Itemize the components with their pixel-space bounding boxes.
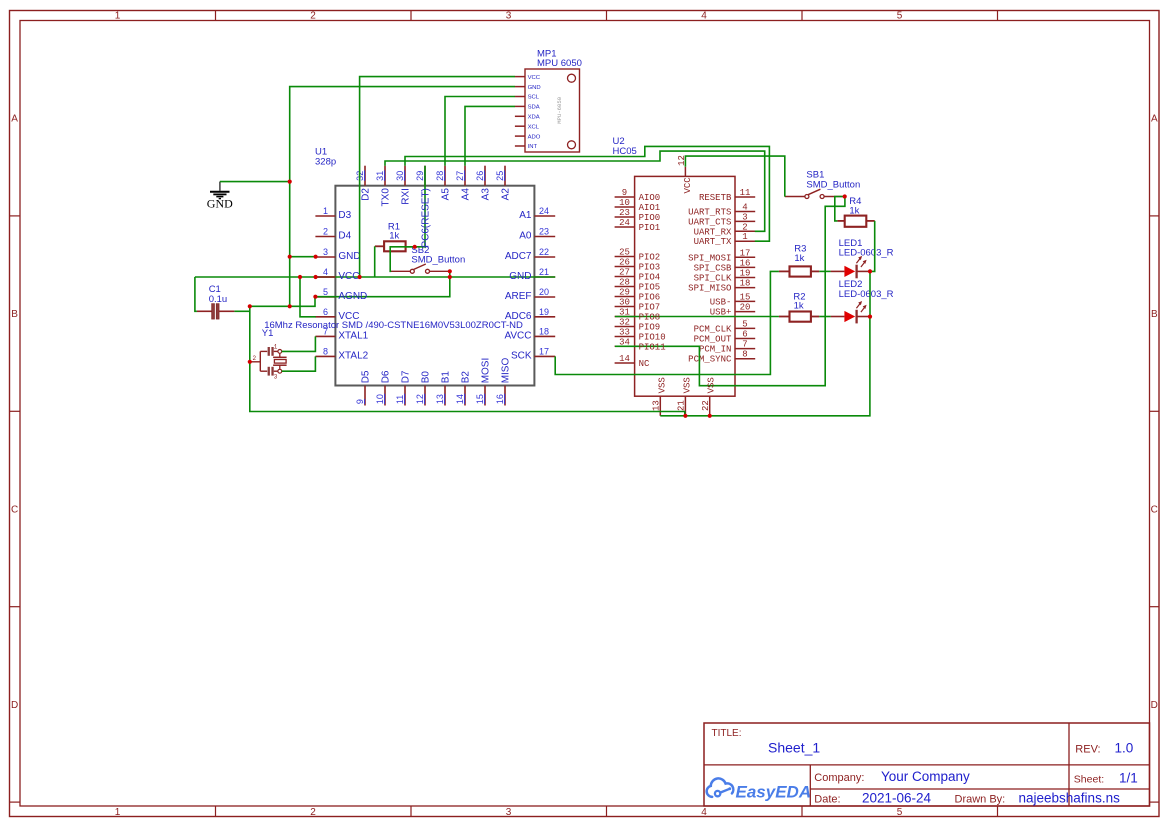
svg-text:A: A <box>1151 114 1158 125</box>
svg-text:27: 27 <box>455 171 465 181</box>
U1 pin 16 MISO <box>495 358 511 406</box>
U2 pin 7 PCM_IN <box>699 340 755 355</box>
U1 pin 27 A4 <box>455 166 471 201</box>
svg-text:VCC: VCC <box>683 177 693 194</box>
U1 pin 28 A5 <box>435 166 451 201</box>
svg-text:14: 14 <box>619 354 630 364</box>
svg-text:D2: D2 <box>360 188 371 201</box>
svg-text:1k: 1k <box>794 253 804 264</box>
svg-text:1: 1 <box>323 206 328 216</box>
svg-text:5: 5 <box>897 807 903 818</box>
U1 pin 9 D5 <box>355 370 371 405</box>
svg-text:SMD_Button: SMD_Button <box>806 179 860 190</box>
U1 pin 29 PC6(RESET) <box>415 166 425 186</box>
U1 pin 2 D4 <box>315 227 351 242</box>
svg-text:A: A <box>11 114 18 125</box>
svg-text:B2: B2 <box>460 371 471 384</box>
svg-text:ADO: ADO <box>528 134 541 140</box>
svg-text:PIO11: PIO11 <box>639 342 666 352</box>
svg-text:B0: B0 <box>420 371 431 384</box>
U2 pin 31 PIO8 <box>615 308 635 318</box>
svg-text:TX0: TX0 <box>380 188 391 207</box>
U2 pin 5 PCM_CLK <box>694 319 756 334</box>
resistor R1 1k <box>375 222 406 252</box>
frame column numbers top <box>115 11 903 22</box>
svg-text:TITLE:: TITLE: <box>712 728 742 739</box>
svg-text:22: 22 <box>701 400 711 411</box>
svg-text:A4: A4 <box>460 188 471 201</box>
junction SB2 right top <box>448 269 452 273</box>
svg-text:GND: GND <box>338 251 360 262</box>
svg-text:AVCC: AVCC <box>504 330 531 341</box>
svg-text:29: 29 <box>415 171 425 181</box>
svg-text:PIO7: PIO7 <box>639 303 661 313</box>
svg-text:REV:: REV: <box>1075 744 1100 756</box>
svg-text:10: 10 <box>619 198 630 208</box>
U1 pin 23 A0 <box>519 227 555 242</box>
U2 pin 2 UART_RX <box>694 222 756 237</box>
U2 pin 4 UART_RTS <box>688 203 755 218</box>
svg-text:PIO0: PIO0 <box>639 213 661 223</box>
svg-text:24: 24 <box>619 218 630 228</box>
svg-text:AREF: AREF <box>505 291 532 302</box>
svg-text:UART_TX: UART_TX <box>694 237 732 247</box>
svg-text:SPI_CLK: SPI_CLK <box>694 274 732 284</box>
svg-text:25: 25 <box>619 248 630 258</box>
svg-text:MISO: MISO <box>500 358 511 384</box>
svg-text:9: 9 <box>622 188 627 198</box>
svg-text:AIO0: AIO0 <box>639 193 661 203</box>
junction LED1 cathode <box>868 269 872 273</box>
wire LED1 cathode to LED2 cathode <box>869 271 871 316</box>
wire VCC riser to U1 pin6 <box>300 277 316 317</box>
U1 pin 31 TX0 <box>375 166 391 207</box>
svg-text:Sheet:: Sheet: <box>1074 774 1104 786</box>
svg-text:USB-: USB- <box>710 297 732 307</box>
svg-text:11: 11 <box>395 395 405 404</box>
svg-text:1: 1 <box>274 344 278 351</box>
wire VSS bottom to LED2 cathode <box>660 317 870 416</box>
svg-text:16Mhz Resonator SMD /490-CSTNE: 16Mhz Resonator SMD /490-CSTNE16M0V53L00… <box>264 320 523 331</box>
U1 pin 20 AREF <box>505 287 555 302</box>
U2 pin 21 VSS <box>677 377 693 416</box>
wire GND link to U1 pin3 <box>290 256 316 258</box>
svg-text:4: 4 <box>701 807 707 818</box>
U1 pin 18 AVCC <box>504 327 555 342</box>
svg-text:PCM_IN: PCM_IN <box>699 345 731 355</box>
U2 pin 8 PCM_SYNC <box>688 350 755 365</box>
wire VCC from MP1 VCC to U1 pin4 row <box>360 77 515 277</box>
svg-text:5: 5 <box>323 287 328 297</box>
svg-text:328p: 328p <box>315 156 336 167</box>
U2 pin 16 SPI_CSB <box>694 258 756 273</box>
junction GND wire and GND column <box>288 180 292 184</box>
junction U1 pin3 <box>314 255 318 259</box>
svg-text:1: 1 <box>742 232 747 242</box>
wire SCL from MP1 to U1 A5 <box>445 97 515 166</box>
svg-text:GND: GND <box>509 271 531 282</box>
title block frame <box>704 723 1150 806</box>
U1 pin 4 stub overlay <box>315 276 335 278</box>
svg-text:24: 24 <box>539 206 549 216</box>
svg-text:A0: A0 <box>519 231 532 242</box>
wire GND column to VSS bottom <box>250 306 685 416</box>
svg-text:LED-0603_R: LED-0603_R <box>839 248 894 259</box>
U2 pin 29 PIO6 <box>615 288 661 303</box>
module MP1 MPU 6050 body <box>525 69 580 152</box>
wire GND row to AGND pin5 <box>250 297 315 307</box>
MP1 pin SDA <box>515 105 540 111</box>
U1 pin 7 XTAL1 <box>315 327 368 342</box>
wire R2 to LED2 anode <box>819 316 830 318</box>
svg-text:Y1: Y1 <box>262 328 274 339</box>
svg-text:PIO3: PIO3 <box>639 263 661 273</box>
svg-text:A5: A5 <box>440 188 451 201</box>
U2 pin 27 PIO4 <box>615 268 661 283</box>
svg-text:A2: A2 <box>500 188 511 201</box>
svg-text:3: 3 <box>506 807 512 818</box>
switch SB1 SMD_Button <box>785 170 860 199</box>
U2 pin 1 UART_TX <box>694 232 756 247</box>
U1 pin 25 A2 <box>495 166 511 201</box>
svg-text:SDA: SDA <box>528 105 540 111</box>
svg-text:C: C <box>11 505 18 516</box>
junction GND column and GND row <box>288 304 292 308</box>
wire SDA from MP1 to U1 A4 <box>465 106 515 165</box>
capacitor C1 0.1u <box>197 284 235 319</box>
frame row letters left <box>11 114 18 712</box>
svg-text:28: 28 <box>619 278 630 288</box>
svg-text:B: B <box>1151 309 1158 320</box>
svg-text:5: 5 <box>742 319 747 329</box>
svg-text:RESETB: RESETB <box>699 193 732 203</box>
svg-text:1k: 1k <box>794 300 804 311</box>
svg-text:31: 31 <box>375 171 385 181</box>
svg-text:21: 21 <box>677 400 687 411</box>
wire ground symbol to GND column <box>220 181 290 183</box>
svg-text:32: 32 <box>619 318 630 328</box>
svg-text:PIO2: PIO2 <box>639 253 661 263</box>
svg-text:GND: GND <box>207 197 233 211</box>
svg-text:30: 30 <box>619 298 630 308</box>
wire U2 VCC pin12 to SB1 <box>685 156 784 197</box>
junction SB2 right and VCC row <box>448 275 452 279</box>
svg-text:PC6(RESET): PC6(RESET) <box>420 188 431 247</box>
junction U2 VSS pin21 <box>683 414 687 418</box>
U1 pin 3 GND <box>315 247 360 262</box>
svg-text:2: 2 <box>742 222 747 232</box>
svg-text:NC: NC <box>639 359 650 369</box>
U1 pin 24 A1 <box>519 206 555 221</box>
svg-text:D: D <box>1151 700 1158 711</box>
svg-text:ADC7: ADC7 <box>505 251 532 262</box>
svg-text:PIO9: PIO9 <box>639 323 661 333</box>
wire R3 to LED1 anode <box>819 270 830 272</box>
wire RXI to U2 UART_TX <box>405 146 769 241</box>
svg-text:MPU-6050: MPU-6050 <box>556 96 563 123</box>
frame row letters right <box>1151 114 1158 712</box>
svg-text:19: 19 <box>539 307 549 317</box>
svg-text:1: 1 <box>115 807 121 818</box>
wire R4 to LED1 cathode <box>870 221 875 272</box>
svg-text:UART_RX: UART_RX <box>694 227 732 237</box>
U1 pin 5 AGND <box>315 287 335 297</box>
svg-text:HC05: HC05 <box>613 146 637 157</box>
U2 pin 24 PIO1 <box>615 218 661 233</box>
MP1 pin INT <box>515 144 538 150</box>
U1 pin 32 D2 <box>355 166 371 201</box>
svg-text:Your Company: Your Company <box>881 769 970 784</box>
svg-text:SCL: SCL <box>528 95 540 101</box>
svg-text:3: 3 <box>742 212 747 222</box>
wire C1 right to GND column <box>234 310 249 312</box>
U2 pin 28 PIO5 <box>615 278 661 293</box>
U1 pin 15 MOSI <box>475 358 491 406</box>
svg-text:SMD_Button: SMD_Button <box>411 255 465 266</box>
U1 pin 8 XTAL2 <box>315 347 368 362</box>
switch SB2 SMD_Button <box>390 245 465 273</box>
IC U2 HC05 body <box>635 176 735 396</box>
svg-text:AGND: AGND <box>338 291 367 302</box>
svg-text:D: D <box>11 700 18 711</box>
U2 pin 14 NC <box>615 354 650 369</box>
svg-text:INT: INT <box>528 144 538 150</box>
svg-text:23: 23 <box>539 227 549 237</box>
svg-text:najeebshafins.ns: najeebshafins.ns <box>1019 791 1121 806</box>
U2 pin 13 VSS <box>652 377 668 416</box>
U2 pin 11 RESETB <box>699 188 755 203</box>
U2 pin 19 SPI_CLK <box>694 269 756 284</box>
U2 pin 18 SPI_MISO <box>688 279 755 294</box>
svg-text:2: 2 <box>310 807 316 818</box>
svg-text:17: 17 <box>740 248 751 258</box>
svg-text:Company:: Company: <box>814 772 864 784</box>
svg-text:28: 28 <box>435 171 445 181</box>
svg-text:33: 33 <box>619 328 630 338</box>
U2 pin 30 PIO7 <box>615 298 661 313</box>
svg-text:2021-06-24: 2021-06-24 <box>862 791 932 806</box>
svg-text:2: 2 <box>252 355 256 362</box>
svg-text:AIO1: AIO1 <box>639 203 661 213</box>
junction R1 right <box>413 245 417 249</box>
wire R1 left to VCC row <box>374 246 376 277</box>
wire GND from MP1 GND down left column <box>290 87 515 307</box>
svg-text:PIO1: PIO1 <box>639 223 661 233</box>
wire AGND row to SB2 right <box>315 271 449 296</box>
svg-text:5: 5 <box>897 11 903 22</box>
svg-text:18: 18 <box>539 327 549 337</box>
U1 pin 13 B1 <box>435 371 451 406</box>
U1 pin 22 ADC7 <box>505 247 555 262</box>
led LED1 LED-0603_R <box>831 238 894 278</box>
svg-text:UART_CTS: UART_CTS <box>688 217 731 227</box>
U1 pin 19 ADC6 <box>505 307 555 322</box>
svg-text:15: 15 <box>475 394 485 404</box>
svg-text:A3: A3 <box>480 188 491 201</box>
MP1 pin VCC <box>515 75 541 81</box>
svg-text:6: 6 <box>323 307 328 317</box>
svg-text:PIO10: PIO10 <box>639 333 666 343</box>
svg-text:1.0: 1.0 <box>1115 741 1134 756</box>
svg-text:MOSI: MOSI <box>480 358 491 384</box>
svg-text:29: 29 <box>619 288 630 298</box>
svg-text:16: 16 <box>495 394 505 404</box>
svg-text:SPI_MISO: SPI_MISO <box>688 284 731 294</box>
svg-text:VSS: VSS <box>682 377 692 393</box>
svg-text:Sheet_1: Sheet_1 <box>768 740 820 756</box>
svg-text:15: 15 <box>740 292 751 302</box>
svg-text:16: 16 <box>740 258 751 268</box>
svg-text:D6: D6 <box>380 370 391 383</box>
svg-text:VSS: VSS <box>707 377 717 393</box>
svg-text:23: 23 <box>619 208 630 218</box>
U2 pin 22 VSS <box>701 396 711 416</box>
svg-text:3: 3 <box>274 373 278 380</box>
junction SB1 right <box>843 194 847 198</box>
MP1 pin SCL <box>515 95 540 101</box>
svg-text:10: 10 <box>375 394 385 404</box>
svg-text:8: 8 <box>323 347 328 357</box>
svg-text:A1: A1 <box>519 210 532 221</box>
svg-text:11: 11 <box>740 188 751 198</box>
svg-text:27: 27 <box>619 268 630 278</box>
svg-text:VSS: VSS <box>657 377 667 393</box>
wire R1 right to PC6 wire <box>406 246 415 248</box>
junction Y1 pin2 <box>248 360 252 364</box>
resonator Y1 16Mhz <box>250 344 287 381</box>
U1 pin 11 D7 <box>395 370 411 405</box>
svg-text:1: 1 <box>115 11 121 22</box>
svg-text:Drawn By:: Drawn By: <box>955 794 1006 806</box>
U2 pin 26 PIO3 <box>615 258 661 273</box>
U2 pin 10 AIO1 <box>615 198 661 213</box>
U2 pin 12 VCC <box>677 155 693 193</box>
U2 pin 33 PIO10 <box>615 328 666 343</box>
U2 pin 15 USB- <box>710 292 755 307</box>
U2 pin 23 PIO0 <box>615 208 661 223</box>
wire SB1 right to U2 PI011 <box>615 197 845 386</box>
svg-text:1k: 1k <box>389 231 399 242</box>
svg-text:EasyEDA: EasyEDA <box>736 783 812 802</box>
svg-text:LED-0603_R: LED-0603_R <box>839 289 894 300</box>
svg-text:19: 19 <box>740 269 751 279</box>
wire U2 PI08 to R2 <box>615 316 779 318</box>
svg-text:14: 14 <box>455 394 465 404</box>
svg-text:26: 26 <box>619 258 630 268</box>
frame column numbers bottom <box>115 807 903 818</box>
svg-text:13: 13 <box>652 400 662 411</box>
wire VCC row U1 pin4 to pin21 <box>195 276 555 278</box>
svg-text:1k: 1k <box>849 206 859 217</box>
svg-text:SPI_CSB: SPI_CSB <box>694 263 732 273</box>
svg-text:4: 4 <box>742 203 747 213</box>
EasyEDA logo <box>707 778 811 801</box>
svg-text:PCM_OUT: PCM_OUT <box>694 335 732 345</box>
svg-text:GND: GND <box>528 85 541 91</box>
resistor R4 1k <box>837 196 874 227</box>
resistor R2 1k <box>779 291 819 321</box>
svg-text:26: 26 <box>475 171 485 181</box>
svg-text:VCC: VCC <box>528 75 541 81</box>
wire XTAL1 to Y1 pin1 <box>282 336 316 351</box>
U1 pin 4 VCC <box>315 267 335 277</box>
svg-text:UART_RTS: UART_RTS <box>688 208 731 218</box>
U2 pin 34 PIO11 <box>615 337 635 347</box>
U2 pin 6 PCM_OUT <box>694 330 756 345</box>
svg-text:3: 3 <box>506 11 512 22</box>
svg-text:XTAL1: XTAL1 <box>338 330 368 341</box>
svg-text:7: 7 <box>742 340 747 350</box>
svg-text:PCM_CLK: PCM_CLK <box>694 324 732 334</box>
led LED2 LED-0603_R <box>831 279 894 323</box>
U1 pin 26 A3 <box>475 166 491 201</box>
wire C1 left riser <box>195 277 197 311</box>
svg-text:20: 20 <box>740 303 751 313</box>
svg-text:XDA: XDA <box>528 115 540 121</box>
svg-text:MPU 6050: MPU 6050 <box>537 58 582 69</box>
svg-text:20: 20 <box>539 287 549 297</box>
svg-text:PCM_SYNC: PCM_SYNC <box>688 355 732 365</box>
U2 pin 25 PIO2 <box>615 248 661 263</box>
MP1 pin ADO <box>515 134 541 140</box>
U1 pin 21 GND <box>534 267 555 277</box>
svg-text:XTAL2: XTAL2 <box>338 350 368 361</box>
resistor R3 1k <box>779 243 819 276</box>
svg-text:12: 12 <box>415 394 425 404</box>
MP1 pin GND <box>515 85 541 91</box>
svg-text:B1: B1 <box>440 371 451 384</box>
ground <box>207 182 233 211</box>
U1 pin 17 SCK <box>511 347 555 362</box>
junction GND row left <box>248 304 252 308</box>
svg-text:18: 18 <box>740 279 751 289</box>
wire PC6(RESET) to R1 and SB2 <box>390 166 425 272</box>
svg-text:SPI_MOSI: SPI_MOSI <box>688 253 731 263</box>
U1 pin 12 B0 <box>415 371 431 406</box>
U2 pin 20 USB+ <box>710 303 755 318</box>
U2 pin 9 AIO0 <box>615 188 661 203</box>
svg-text:VCC: VCC <box>338 271 359 282</box>
IC U1 328p body <box>335 186 534 386</box>
U2 pin 32 PIO9 <box>615 318 661 333</box>
svg-text:0.1u: 0.1u <box>209 294 228 305</box>
junction LED2 cathode <box>868 315 872 319</box>
svg-text:SCK: SCK <box>511 350 532 361</box>
MP1 pin XDA <box>515 115 540 121</box>
svg-text:4: 4 <box>701 11 707 22</box>
U1 pin 1 D3 <box>315 206 351 221</box>
svg-text:3: 3 <box>323 247 328 257</box>
svg-text:D5: D5 <box>360 370 371 383</box>
svg-text:22: 22 <box>539 247 549 257</box>
svg-text:PIO8: PIO8 <box>639 313 661 323</box>
svg-text:PIO5: PIO5 <box>639 283 661 293</box>
svg-text:4: 4 <box>323 267 328 277</box>
junction U2 VSS pin22 <box>708 414 712 418</box>
wire TX0 to U2 UART_RX <box>385 151 765 231</box>
junction VCC riser top <box>298 275 302 279</box>
junction U1 pin5 <box>313 295 317 299</box>
svg-text:1/1: 1/1 <box>1119 771 1138 786</box>
svg-text:6: 6 <box>742 330 747 340</box>
svg-text:B: B <box>11 309 18 320</box>
svg-text:D3: D3 <box>338 210 351 221</box>
svg-text:Date:: Date: <box>814 794 840 806</box>
U1 pin 14 B2 <box>455 371 471 406</box>
svg-text:D7: D7 <box>400 370 411 383</box>
svg-text:30: 30 <box>395 171 405 181</box>
junction U1 pin4 <box>314 275 318 279</box>
